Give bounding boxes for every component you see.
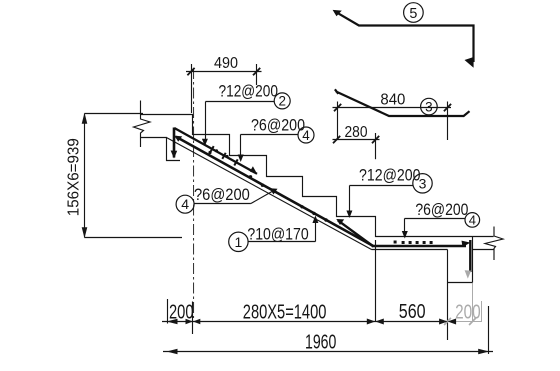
bar 5 detail shape top right [335, 11, 474, 62]
arrow dim at 374.7 left [367, 319, 376, 325]
arrow leader ?6@200 top [238, 155, 244, 163]
wire grey dim segment 200 right [448, 321, 483, 323]
wire stair step profile [140, 115, 494, 237]
arrow leader ?6@200 right [402, 231, 408, 239]
arrow dim at 447 right [448, 319, 457, 325]
arrow bar B2 lower end [250, 166, 257, 174]
svg-text:?6@200: ?6@200 [251, 116, 305, 135]
rebar arrowheads [171, 136, 471, 247]
svg-text:?6@200: ?6@200 [415, 200, 468, 219]
rebar section dots along inclined bar [208, 149, 327, 222]
balloon circle 4 right [465, 213, 480, 228]
bar B3 top bar at landing support [338, 220, 374, 246]
wire landing soffit right of beam [473, 249, 494, 251]
svg-text:3: 3 [419, 176, 427, 192]
balloon circle 5 top [404, 3, 424, 23]
arrow dim at 192.5 left [186, 319, 193, 324]
arrow bar B3 top end [336, 219, 344, 225]
leader label ?12@200 circle 2 [206, 102, 275, 141]
svg-text:?12@200: ?12@200 [219, 82, 279, 101]
arrow leader ?12@200 top [202, 139, 208, 146]
wire inclined slab soffit [167, 138, 372, 250]
leader label ?6@200 circle 4 left [194, 192, 272, 204]
svg-text:3: 3 [425, 100, 433, 115]
bar B1 hook vertical at top support [173, 128, 176, 158]
arrow bar5 bottom end [465, 57, 474, 68]
dimension 1960 [163, 306, 493, 354]
svg-text:4: 4 [181, 196, 189, 212]
svg-text:156X6=939: 156X6=939 [65, 138, 82, 216]
balloon circle 2 [274, 93, 290, 109]
leader label ?10@170 circle 1 [249, 222, 316, 242]
arrow dim939 bottom [82, 227, 88, 238]
dimension 156X6=939 vertical [85, 114, 183, 238]
svg-text:2: 2 [278, 94, 286, 109]
arrow bar5 left end [333, 10, 342, 16]
svg-text:840: 840 [380, 92, 405, 109]
wire floor slab soffit at top support [140, 138, 180, 161]
bar 3 detail shape [335, 89, 470, 116]
dimension 840 [333, 102, 452, 141]
balloon circle 3 right [413, 174, 432, 193]
wire landing slab soffit [372, 249, 448, 251]
arrow grey bar bend end [465, 270, 472, 278]
svg-text:200: 200 [455, 302, 481, 324]
node centerline axis [193, 68, 195, 318]
leader label ?6@200 circle 4 top [241, 135, 299, 157]
svg-text:5: 5 [409, 6, 417, 22]
bar B1 bent-down end into beam [469, 240, 471, 272]
wire left wall break line [134, 101, 151, 148]
svg-text:?6@200: ?6@200 [194, 185, 250, 204]
svg-text:1960: 1960 [305, 332, 336, 354]
arrow dim at 447 left [439, 319, 448, 325]
balloon circle 4 top [298, 127, 314, 143]
svg-text:200: 200 [169, 302, 194, 324]
balloon circle 4 left [176, 195, 194, 213]
svg-text:?10@170: ?10@170 [247, 225, 308, 244]
leader label ?12@200 circle 3 right [350, 186, 414, 212]
balloon circle 3 on dim 840 [421, 98, 438, 115]
dimension 490 [186, 64, 262, 113]
wire edge beam under landing [448, 237, 473, 283]
bar B1 landing horizontal segment [372, 245, 466, 248]
arrow bar1 top end [174, 136, 182, 142]
dimension 280 [333, 133, 380, 159]
dimension row 200 / 280X5=1400 / 560 / 200 [162, 240, 448, 340]
bar B2 cross tick marks [210, 146, 237, 165]
svg-text:560: 560 [399, 301, 426, 323]
balloon circle 1 [229, 232, 248, 251]
svg-text:4: 4 [469, 212, 476, 227]
leader label ?6@200 circle 4 right [405, 219, 466, 232]
svg-text:280: 280 [345, 124, 368, 141]
arrow dim bottom left end [167, 319, 178, 325]
arrow dim939 top [82, 113, 88, 124]
svg-text:1: 1 [235, 234, 243, 250]
svg-text:?12@200: ?12@200 [359, 165, 421, 184]
svg-text:280X5=1400: 280X5=1400 [243, 302, 327, 324]
arrow leader ?6@200 left [270, 188, 278, 194]
bar B1 main inclined bar [176, 137, 373, 246]
arrow leader ?10@170 [312, 216, 318, 224]
rebar section dots on landing bar [394, 241, 433, 245]
svg-text:4: 4 [302, 128, 310, 143]
bar B2 top bar inclined segment [174, 128, 257, 174]
wire right slab break line [485, 227, 503, 261]
arrow landing bar right end [462, 241, 471, 247]
arrow dim1960 left [167, 349, 178, 355]
arrow leader ?12@200 right [346, 211, 352, 219]
rebar group: main bars (thick) [174, 128, 470, 273]
arrow dim at 374.7 right [375, 319, 384, 325]
arrow dim1960 right [478, 349, 489, 355]
svg-text:490: 490 [214, 55, 238, 72]
arrow dim at 192.5 right [193, 319, 200, 324]
arrow hook bottom [171, 151, 178, 159]
